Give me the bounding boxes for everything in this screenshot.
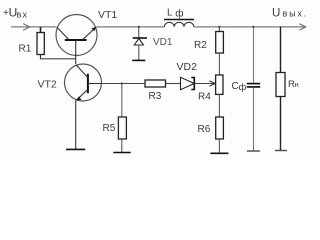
wire VT2 base to R3 bbox=[101, 83, 145, 85]
resistor R5 bbox=[118, 84, 126, 153]
svg-text:VD1: VD1 bbox=[153, 37, 173, 48]
diode VD1 (zener) bbox=[132, 27, 147, 61]
ground R5 bbox=[113, 152, 130, 154]
wire R4 to R6 bbox=[218, 94, 220, 117]
label Rn load bbox=[288, 79, 299, 90]
wire top rail to R2 bbox=[218, 27, 220, 32]
svg-text:VD2: VD2 bbox=[177, 61, 198, 73]
junction R5 middle bbox=[121, 82, 123, 84]
svg-text:VT2: VT2 bbox=[38, 79, 57, 91]
svg-text:ф: ф bbox=[239, 82, 247, 93]
svg-text:н: н bbox=[295, 80, 299, 89]
resistor Rn load bbox=[276, 27, 285, 151]
svg-text:вх: вх bbox=[17, 9, 29, 19]
node +Uvx input label bbox=[3, 6, 28, 20]
ground Rn load bbox=[275, 150, 287, 152]
label L filter bbox=[167, 7, 183, 19]
wire inductor to output arrow bbox=[194, 26, 306, 28]
svg-text:L: L bbox=[167, 8, 173, 19]
diode VD2 bbox=[181, 77, 216, 89]
resistor R6 bbox=[216, 117, 224, 139]
svg-text:U: U bbox=[272, 8, 280, 20]
wire R2 to R4 bbox=[218, 53, 220, 75]
wire output arrow head bbox=[299, 24, 306, 30]
svg-text:вых.: вых. bbox=[283, 9, 308, 19]
resistor R1 bbox=[37, 27, 44, 59]
svg-text:R5: R5 bbox=[103, 123, 116, 134]
svg-text:R2: R2 bbox=[194, 40, 207, 51]
resistor R4 (adjustable) bbox=[216, 75, 223, 94]
svg-text:R1: R1 bbox=[19, 44, 32, 55]
svg-text:ф: ф bbox=[175, 7, 183, 19]
svg-text:R4: R4 bbox=[198, 92, 211, 103]
junction VD1 top bbox=[138, 26, 140, 28]
svg-text:R3: R3 bbox=[149, 91, 162, 102]
resistor R2 bbox=[216, 32, 224, 54]
transistor VT2 bbox=[65, 64, 102, 101]
resistor R3 bbox=[145, 80, 180, 87]
transistor VT1 bbox=[56, 15, 97, 65]
wire VT2 emitter down bbox=[75, 101, 77, 150]
svg-text:R6: R6 bbox=[198, 124, 211, 135]
ground VT2 emitter bbox=[66, 148, 85, 150]
wire R1 bottom to VT1 base bbox=[40, 58, 76, 60]
wire input rail left bbox=[11, 26, 56, 28]
junction R2 top bbox=[218, 26, 220, 28]
inductor L filter bbox=[164, 20, 194, 27]
junction C filter top bbox=[252, 26, 254, 28]
wire R6 down bbox=[218, 139, 220, 153]
node Uvyh output label bbox=[272, 8, 308, 20]
wire input direction arrow bbox=[23, 24, 30, 31]
ground R6 bbox=[210, 152, 228, 154]
svg-text:VT1: VT1 bbox=[98, 9, 117, 21]
label C filter bbox=[232, 81, 247, 93]
ground C filter bbox=[247, 150, 260, 152]
wire VT1 emitter to inductor bbox=[97, 26, 165, 28]
capacitor C filter bbox=[247, 27, 260, 152]
